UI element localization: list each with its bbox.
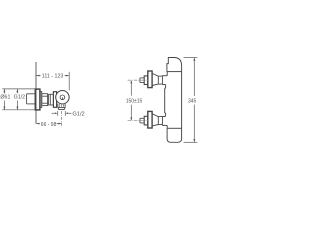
diameter 61 arrows (3, 89, 5, 110)
svg-text:66 - 98: 66 - 98 (41, 122, 57, 128)
top union flange (148, 71, 152, 88)
outlet nozzle (threaded, G1/2) (58, 104, 65, 110)
body right edge (181, 66, 183, 139)
dimension 111-123 (wall to handle front) (36, 72, 69, 91)
bottom union nut (144, 116, 148, 125)
top union nut (144, 76, 148, 85)
flange back plate (40, 92, 42, 108)
svg-text:150±15: 150±15 (126, 98, 143, 104)
svg-text:G1/2: G1/2 (14, 95, 26, 101)
svg-text:345: 345 (188, 98, 197, 104)
dimension 66-98 (wall to outlet axis) (36, 123, 61, 125)
body column left contour with bosses (162, 72, 167, 129)
handle (knob, side view circle) (56, 91, 69, 104)
svg-text:111 - 123: 111 - 123 (42, 74, 64, 80)
valve cartridge section (49, 94, 54, 105)
diameter 61 extension lines (2, 89, 35, 110)
outlet centerline (61, 111, 63, 127)
union nut (42, 94, 48, 106)
body bottom cap (167, 128, 182, 142)
dimension 345 (193, 58, 195, 143)
bottom union centerline (128, 120, 148, 122)
bottom union flange (148, 111, 152, 128)
dimension 150±15 (130, 80, 132, 120)
top union pipe (140, 78, 144, 83)
top union cone (152, 73, 162, 85)
svg-text:G1/2: G1/2 (72, 111, 84, 117)
handle index mark (61, 97, 63, 99)
wall (35, 62, 37, 124)
valve body plate (side view) (53, 92, 56, 108)
handle hub (60, 95, 65, 100)
bottom union pipe (140, 118, 144, 123)
bottom union cone (152, 114, 162, 126)
G1/2 outlet dimension (52, 111, 72, 116)
G1/2 inlet arrows (16, 89, 18, 110)
svg-text:Ø61: Ø61 (0, 95, 10, 101)
flange (wall escutcheon, side view) (35, 89, 40, 110)
345 extension lines (184, 58, 198, 143)
body head cap (167, 58, 182, 72)
top union centerline (128, 79, 148, 81)
supply pipe stub (27, 94, 36, 104)
